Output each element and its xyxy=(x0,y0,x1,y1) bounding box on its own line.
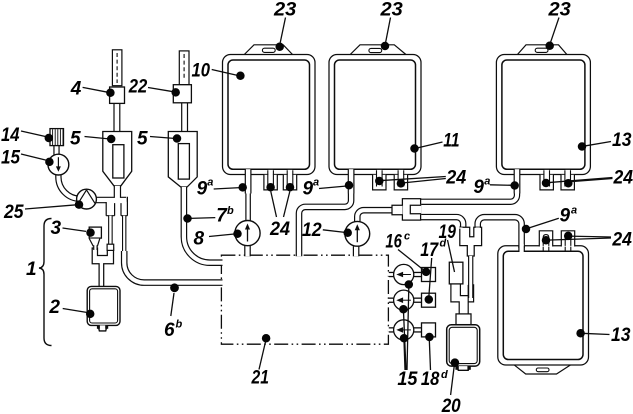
svg-text:5: 5 xyxy=(70,128,81,149)
svg-text:11: 11 xyxy=(443,131,459,152)
node: connector on junction line xyxy=(107,244,114,250)
bag 13 (top right) xyxy=(496,45,590,175)
svg-text:2: 2 xyxy=(48,297,60,318)
svg-text:19: 19 xyxy=(439,222,457,243)
svg-text:24: 24 xyxy=(611,230,632,251)
wire: tube drip chamber 5 into junction xyxy=(114,186,121,202)
svg-text:9: 9 xyxy=(197,178,208,199)
connector 4 xyxy=(110,87,125,103)
svg-text:d: d xyxy=(441,369,448,381)
wire: narrow tube junction down (to 6b) xyxy=(122,216,126,253)
wire: narrow tube junction to sampling manifold xyxy=(108,216,113,245)
svg-text:21: 21 xyxy=(251,368,269,389)
brace for group 1 xyxy=(39,219,52,346)
svg-text:24: 24 xyxy=(613,168,633,189)
wire: bypass tube right of filter 19 xyxy=(468,256,473,298)
pump 8 (circle, up arrow) xyxy=(235,221,260,246)
svg-text:3: 3 xyxy=(51,218,62,239)
svg-text:15: 15 xyxy=(1,148,20,169)
pump 12 (circle, up arrow) xyxy=(345,221,370,246)
svg-text:a: a xyxy=(207,177,213,189)
port stubs 24 under bag 11 xyxy=(373,170,408,190)
svg-text:9: 9 xyxy=(473,177,484,198)
svg-text:5: 5 xyxy=(137,128,148,149)
svg-text:20: 20 xyxy=(441,396,461,414)
wire: tube 7b from drip chamber to box 21 xyxy=(184,187,223,263)
wire: tube pump 25 to junction xyxy=(88,197,126,204)
svg-text:b: b xyxy=(176,319,183,331)
check valve 15 (circle with down arrow) xyxy=(48,154,69,175)
svg-text:23: 23 xyxy=(379,0,403,21)
node: sampling manifold (joins clamp 3 line and junction line) xyxy=(92,248,113,287)
port stubs 24 above bag 13 bottom xyxy=(539,231,574,251)
clamp 3 xyxy=(89,227,101,250)
wire: tube 6b to box 21 xyxy=(124,251,222,283)
svg-text:23: 23 xyxy=(547,0,571,21)
bag 13 (bottom right) xyxy=(498,246,589,374)
svg-text:1: 1 xyxy=(26,259,37,280)
port stubs 24 under bag 10 xyxy=(264,170,297,190)
box 21 (controller, phantom dash-dot border) xyxy=(221,255,388,344)
sample bottle 2 xyxy=(87,286,120,331)
wire: tube pump 12 bottom to box 21 xyxy=(353,246,360,256)
svg-text:17: 17 xyxy=(420,240,439,261)
svg-text:24: 24 xyxy=(269,219,290,240)
bag 20 xyxy=(447,325,480,371)
svg-text:a: a xyxy=(313,177,319,189)
svg-text:16: 16 xyxy=(385,231,402,252)
leader dots xyxy=(45,41,587,366)
node: junction below drip chamber (open bottom, two outlets) xyxy=(106,197,127,216)
svg-text:10: 10 xyxy=(192,61,211,82)
bag 11 xyxy=(329,45,421,175)
wire: tube bag13 top port down and left to fitting (9a line) xyxy=(420,169,517,202)
svg-text:c: c xyxy=(404,231,410,243)
svg-text:13: 13 xyxy=(611,325,631,346)
pump 25 (circle with wedge) xyxy=(77,189,97,209)
svg-text:24: 24 xyxy=(445,168,466,189)
wire: tube bag13 bottom to Y-junction (9a line) xyxy=(478,217,522,248)
wire: tube pump 12 top to fitting xyxy=(357,210,392,222)
needle 4 (spike) xyxy=(112,50,122,86)
svg-text:9: 9 xyxy=(303,179,314,200)
svg-text:a: a xyxy=(484,176,490,188)
wire: curve from valve 15 to pump 25 xyxy=(58,172,88,199)
svg-text:b: b xyxy=(227,205,234,217)
needle 22 (spike) xyxy=(179,51,189,85)
wire: tube fitting bottom-right to Y-junction xyxy=(420,217,463,228)
drip chamber 5 (left) xyxy=(103,132,132,186)
wire: tube bag10 to pump 8 (9a line) xyxy=(245,169,252,221)
valve row 1 (16c): stub, circle, square xyxy=(388,264,436,284)
wire: tube into bag 13 bottom xyxy=(518,244,525,252)
svg-text:22: 22 xyxy=(128,77,148,98)
node: merge block below filter 19 xyxy=(451,284,474,314)
wire: tube block4 to drip chamber 5 xyxy=(113,101,120,133)
fitting (4-way manifold right of pump 12) xyxy=(392,199,421,220)
air filter 14 (hatched square) xyxy=(50,129,64,155)
svg-text:8: 8 xyxy=(194,229,205,250)
svg-text:12: 12 xyxy=(302,220,322,241)
node: Y-junction block above filter 19 xyxy=(460,227,482,256)
svg-text:25: 25 xyxy=(3,202,24,223)
svg-text:6: 6 xyxy=(164,320,175,341)
svg-text:9: 9 xyxy=(560,206,571,227)
wire: tube block22 to drip chamber 5 xyxy=(181,103,188,133)
port stubs 24 under bag 13 top xyxy=(540,170,574,190)
drip chamber 5 (right) xyxy=(168,132,197,187)
svg-text:a: a xyxy=(571,205,577,217)
svg-text:13: 13 xyxy=(612,130,632,151)
filter 19 xyxy=(449,262,463,284)
wire: tube bag11 down, left, into box 21 (9a line) xyxy=(299,169,351,256)
bag 10 xyxy=(223,45,316,175)
svg-text:18: 18 xyxy=(421,369,440,390)
svg-text:23: 23 xyxy=(273,0,297,21)
valve row 2 (17d): stub, circle, square xyxy=(388,290,436,310)
svg-text:4: 4 xyxy=(70,78,82,99)
svg-text:15: 15 xyxy=(397,369,417,390)
wire: tube pump 8 to box 21 xyxy=(244,246,251,257)
svg-text:14: 14 xyxy=(1,125,20,146)
valve row 3 (18d): stub, circle, square xyxy=(388,320,436,340)
node: connector above bag 20 xyxy=(456,314,471,325)
connector 22 xyxy=(173,85,191,103)
